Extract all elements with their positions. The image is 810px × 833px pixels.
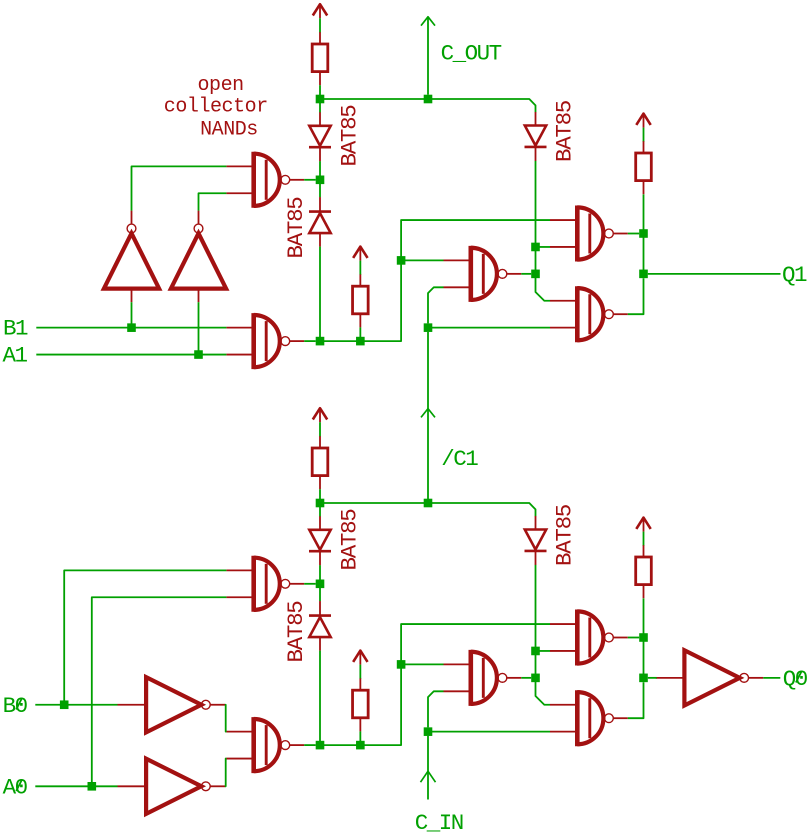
wire NAND U0B output to junction: [304, 744, 316, 746]
svg-text:open: open: [198, 74, 244, 97]
nand gate U1B input pins: [226, 328, 253, 355]
VCC supply symbol P0a: [313, 408, 327, 422]
resistor R0a bottom pin: [319, 476, 321, 490]
nand gate U0B body: [254, 717, 290, 773]
node carry column bit1: junction: [424, 95, 433, 104]
VCC supply symbol P0c: [636, 518, 650, 532]
wire NAND U1A output to junction: [304, 179, 316, 181]
wire NAND U1C lower input from carry column with bevel: [428, 287, 444, 323]
resistor R0b top pin: [359, 678, 361, 690]
svg-text:Q0: Q0: [783, 666, 808, 692]
diode D1a cathode pin: [319, 147, 321, 161]
node N02: junction D0c cathode / U0C input: [531, 647, 540, 656]
wire C_OUT net vertical with arrow: [427, 17, 429, 95]
svg-text:A1: A1: [3, 343, 28, 369]
inverter U0F body: [146, 677, 210, 732]
resistor R1b top pin: [359, 274, 361, 286]
wire inverter U1G input down to A1 wire: [198, 302, 200, 354]
wire resistor R0a to node /C1: [319, 489, 321, 503]
node junction feeding NAND U0C upper input: [397, 660, 406, 669]
wire node N01 to diode D0b cathode: [319, 584, 321, 602]
wire pull rail to diode D1c with bevel corner: [428, 99, 536, 112]
nand gate U1D output pin: [613, 233, 628, 235]
inverter U0H input pin: [656, 677, 685, 679]
wire net C_IN vertical: [427, 736, 429, 800]
resistor R0a: [312, 448, 328, 476]
node N01: wired-AND junction at NAND U0A output: [316, 580, 325, 589]
VCC supply symbol P0b: [353, 651, 367, 665]
diode D1b anode pin: [319, 233, 321, 247]
diode D0a (BAT85, cathode down): [309, 530, 331, 551]
wire NAND U1E output up to Q node: [628, 278, 644, 314]
wire diode D1a cathode to NAND output node: [319, 161, 321, 175]
node Q0 junction: [639, 674, 648, 683]
svg-text:B1: B1: [3, 316, 28, 342]
wire Q node to inverter U0H input: [648, 677, 657, 679]
wire B0 up to NAND U0A upper input: [64, 570, 226, 704]
resistor R1b: [353, 286, 369, 314]
node Q1 junction: [639, 270, 648, 279]
wire pull rail horizontal bit0: [320, 502, 428, 504]
inverter U0H output pin: [749, 677, 764, 679]
VCC supply symbol P1a: [313, 4, 327, 18]
nand gate U1A body: [254, 152, 290, 208]
node junction at R0b bottom: [356, 741, 365, 750]
node junction feeding NAND U1C upper input: [397, 256, 406, 265]
resistor R1c: [636, 153, 652, 181]
wire inverter U1F output to NAND U1A upper input: [132, 166, 227, 210]
VCC supply symbol P1c: [636, 114, 650, 128]
wire NAND U1C output to junction: [521, 273, 531, 275]
node junction NAND U0C output: [531, 674, 540, 683]
node junction at R1b bottom: [356, 337, 365, 346]
nand gate U1C input pins: [444, 260, 471, 287]
wire carry column junction to NAND U1E lower input: [428, 327, 550, 329]
node N03: junction NAND U0B output: [316, 741, 325, 750]
nand gate U1D input pins: [550, 220, 577, 247]
wire resistor R1a to node C_OUT: [319, 85, 321, 99]
nand gate U1C body: [471, 246, 507, 302]
diode D1b (BAT85, cathode up): [309, 212, 331, 234]
wire node N12 to NAND U1D lower input: [536, 246, 551, 248]
nand gate U1E output pin: [613, 313, 628, 315]
slashed zero of A0: [16, 780, 22, 791]
node N11: wired-AND junction at NAND U1A output: [316, 176, 325, 185]
resistor R0c top pin: [643, 545, 645, 557]
inverter U1G body: [171, 224, 226, 289]
resistor R1a: [312, 44, 328, 72]
net arrow C_IN: [421, 771, 436, 782]
VCC supply symbol P1b: [353, 247, 367, 261]
svg-text:C_OUT: C_OUT: [441, 40, 502, 66]
wire U1C output down to NAND U1E upper input with bevel: [536, 274, 551, 301]
wire junction to NAND U0C upper input: [401, 663, 443, 665]
wire diode D1c cathode down to node N12: [535, 161, 537, 274]
wire net A1: [36, 354, 226, 356]
diode D0b cathode pin: [319, 601, 321, 616]
inverter U0F input pin: [118, 704, 147, 706]
svg-text:BAT85: BAT85: [337, 509, 363, 571]
nand gate U0A output pin: [290, 583, 305, 585]
wire net Q1: [648, 273, 781, 275]
wire VCC net stub at P0c: [643, 532, 645, 546]
diode D1c anode pin: [535, 112, 537, 126]
inverter U0G output pin: [210, 785, 225, 787]
wire junction to NAND U1C upper input: [401, 259, 443, 261]
net arrow C_OUT: [421, 17, 435, 26]
wire VCC net stub at P0a: [319, 422, 321, 436]
wire Q column vertical: [643, 598, 645, 637]
svg-text:B0: B0: [3, 693, 28, 719]
wire pull rail to diode D0c with bevel corner: [428, 503, 536, 516]
nand gate U0A body: [254, 556, 290, 612]
wire net B1: [36, 327, 226, 329]
wire VCC net stub at P0b: [359, 665, 361, 679]
wire Q column vertical: [643, 194, 645, 233]
node junction U0D output on Q column: [639, 633, 648, 642]
svg-text:NANDs: NANDs: [200, 119, 258, 142]
node junction U1D output on Q column: [639, 229, 648, 238]
nand gate U0E output pin: [613, 717, 628, 719]
diode D0b anode pin: [319, 637, 321, 651]
svg-text:C_IN: C_IN: [415, 810, 463, 833]
diode D1c cathode pin: [535, 147, 537, 161]
wire diode D0a cathode to NAND output node: [319, 565, 321, 579]
wire NAND U0C lower input from carry column with bevel: [428, 691, 444, 727]
node junction A1 / inverter U1G input: [194, 350, 203, 359]
diode D0c cathode pin: [535, 551, 537, 565]
svg-text:/C1: /C1: [441, 446, 478, 472]
inverter U0G body: [146, 759, 210, 814]
wire pull node to diode D1a anode: [319, 99, 321, 113]
node junction carry column at U1E lower input row: [424, 323, 433, 332]
svg-text:Q1: Q1: [782, 262, 807, 288]
node junction B0 column: [60, 700, 69, 709]
node N13: junction NAND U1B output: [316, 337, 325, 346]
svg-text:collector: collector: [164, 96, 268, 119]
node junction A0 column: [88, 782, 97, 791]
wire inverter U0F output to NAND U0B upper input: [225, 705, 227, 732]
node pull rail bit1: junction at resistor column: [316, 95, 325, 104]
wire U1B output node to right vertical: [360, 220, 550, 341]
nand gate U1B body: [254, 313, 290, 369]
wire diode D0b anode down to NAND U0B output node: [319, 651, 321, 746]
nand gate U0E body: [577, 690, 613, 746]
resistor R1c bottom pin: [643, 181, 645, 195]
wire pull node to diode D0a anode: [319, 503, 321, 517]
inverter U1F body: [104, 224, 159, 289]
resistor R1a top pin: [319, 32, 321, 44]
inverter U0G input pin: [118, 785, 147, 787]
nand gate U1B output pin: [290, 340, 305, 342]
nand gate U0C input pins: [444, 664, 471, 691]
resistor R0c: [636, 557, 652, 585]
svg-text:BAT85: BAT85: [552, 100, 578, 162]
wire inverter U1F input down to B1 wire: [131, 302, 133, 327]
wire diode D0c cathode down to node N02: [535, 565, 537, 678]
wire U1B output node across resistor R1b column: [320, 340, 360, 342]
resistor R0b bottom pin: [359, 718, 361, 732]
svg-text:BAT85: BAT85: [283, 601, 309, 663]
nand gate U1A input pins: [226, 166, 253, 193]
diode D0c (BAT85, cathode down): [525, 530, 547, 551]
nand gate U1D body: [577, 206, 613, 262]
wire U0C output down to NAND U0E upper input with bevel: [536, 678, 551, 705]
nand gate U1E input pins: [550, 301, 577, 328]
wire diode D1b anode down to NAND U1B output node: [319, 247, 321, 342]
wire VCC net stub at P1a: [319, 18, 321, 32]
wire resistor R0b to node: [359, 731, 361, 745]
wire NAND U0A output to junction: [304, 583, 316, 585]
wire inverter U0G output to NAND U0B lower input: [225, 759, 227, 787]
slashed zero of B0: [16, 699, 22, 710]
svg-text:BAT85: BAT85: [337, 105, 363, 167]
wire U0B output node across resistor R0b column: [320, 744, 360, 746]
nand gate U0D body: [577, 610, 613, 666]
inverter U1G output pin: [198, 211, 200, 225]
diode D1c (BAT85, cathode down): [525, 126, 547, 147]
svg-text:A0: A0: [3, 774, 28, 800]
inverter U0H body: [684, 650, 748, 705]
wire inverter U1G output to NAND U1A lower input: [199, 193, 227, 210]
nand gate U1A output pin: [290, 179, 305, 181]
inverter U1G input pin: [198, 289, 200, 303]
wire net B0: [35, 704, 117, 706]
wire net A0: [35, 785, 117, 787]
annotation text: open collector NANDs: [164, 74, 268, 141]
wire NAND U1D output to junction: [628, 233, 639, 235]
diode D0a anode pin: [319, 516, 321, 530]
wire resistor R1b to node: [359, 327, 361, 341]
inverter U1F input pin: [131, 289, 133, 303]
nand gate U1C output pin: [507, 273, 522, 275]
inverter U0F output pin: [210, 704, 225, 706]
nand gate U0C output pin: [507, 677, 522, 679]
nand gate U0B output pin: [290, 744, 305, 746]
diode D1a (BAT85, cathode down): [309, 126, 331, 147]
wire node N02 to NAND U0D lower input: [536, 650, 551, 652]
diode D1a anode pin: [319, 112, 321, 126]
diode D1b cathode pin: [319, 197, 321, 212]
svg-text:BAT85: BAT85: [552, 504, 578, 566]
node carry column bit0: junction: [424, 499, 433, 508]
diode D0a cathode pin: [319, 551, 321, 565]
wire pull rail horizontal bit1: [320, 98, 428, 100]
wire NAND U1B output to junction: [304, 340, 316, 342]
nand gate U1E body: [577, 286, 613, 342]
svg-text:BAT85: BAT85: [283, 197, 309, 259]
diode D0b (BAT85, cathode up): [309, 616, 331, 638]
resistor R0b: [353, 690, 369, 718]
wire carry column junction to NAND U0E lower input: [428, 731, 550, 733]
nand gate U0C body: [471, 650, 507, 706]
nand gate U0B input pins: [226, 732, 253, 759]
resistor R1a bottom pin: [319, 72, 321, 86]
wire VCC net stub at P1b: [359, 261, 361, 275]
nand gate U0D input pins: [550, 624, 577, 651]
node junction B1 / inverter U1F input: [127, 323, 136, 332]
node junction carry column at U0E lower input row: [424, 727, 433, 736]
nand gate U0E input pins: [550, 705, 577, 732]
resistor R1c top pin: [643, 141, 645, 153]
nand gate U0D output pin: [613, 637, 628, 639]
wire NAND U0E output up to Q node: [628, 682, 644, 718]
resistor R1b bottom pin: [359, 314, 361, 328]
slashed zero of Q0: [796, 672, 802, 683]
resistor R0c bottom pin: [643, 585, 645, 599]
nand gate U0A input pins: [226, 570, 253, 597]
net arrow /C1: [421, 409, 435, 418]
inverter U1F output pin: [131, 211, 133, 225]
diode D0c anode pin: [535, 516, 537, 530]
node junction NAND U1C output: [531, 270, 540, 279]
wire node N11 to diode D1b cathode: [319, 180, 321, 198]
wire A0 up to NAND U0A lower input: [92, 597, 227, 786]
resistor R0a top pin: [319, 436, 321, 448]
wire net Q0: [763, 677, 780, 679]
wire VCC net stub at P1c: [643, 128, 645, 142]
node N12: junction D1c cathode / U1C input: [531, 243, 540, 252]
wire NAND U0D output to junction: [628, 637, 639, 639]
wire NAND U0C output to junction: [521, 677, 531, 679]
wire U0B output node to right vertical: [360, 624, 550, 745]
wire net /C1 vertical between stages: [427, 332, 429, 503]
node pull rail bit0: junction at resistor column: [316, 499, 325, 508]
